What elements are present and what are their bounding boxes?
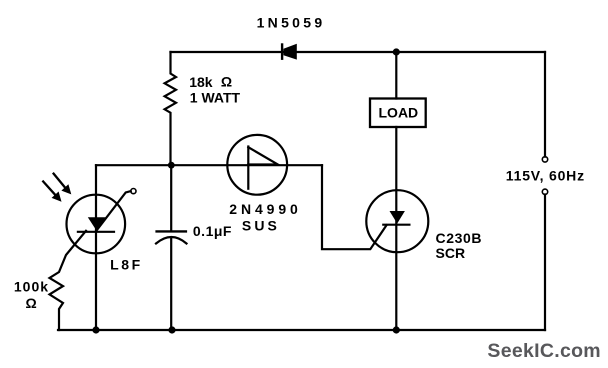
svg-text:Ω: Ω — [221, 73, 232, 89]
svg-text:0.1μF: 0.1μF — [193, 223, 232, 239]
svg-text:SCR: SCR — [436, 245, 466, 261]
svg-text:L8F: L8F — [110, 257, 143, 273]
svg-text:C230B: C230B — [436, 230, 483, 246]
svg-text:1 WATT: 1 WATT — [190, 90, 241, 106]
svg-text:SeekIC.com: SeekIC.com — [487, 340, 601, 362]
svg-text:SUS: SUS — [242, 218, 280, 234]
svg-text:18k: 18k — [189, 74, 213, 90]
svg-text:115V, 60Hz: 115V, 60Hz — [506, 168, 585, 184]
svg-text:LOAD: LOAD — [379, 105, 419, 121]
svg-text:100k: 100k — [14, 278, 49, 294]
svg-text:2N4990: 2N4990 — [229, 201, 301, 217]
svg-text:Ω: Ω — [26, 295, 37, 311]
svg-text:1N5059: 1N5059 — [257, 14, 326, 30]
